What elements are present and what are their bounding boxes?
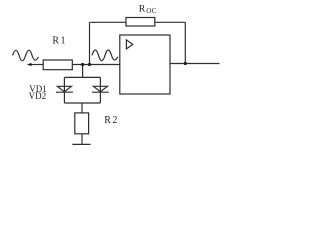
feedback wire down to output bbox=[184, 22, 186, 63]
svg-text:R2: R2 bbox=[104, 115, 119, 126]
diode bottom bus bbox=[64, 102, 100, 104]
svg-text:R: R bbox=[139, 3, 146, 14]
op-amp triangle marker bbox=[126, 40, 132, 49]
svg-text:VD2: VD2 bbox=[29, 91, 46, 101]
ground bbox=[72, 143, 90, 145]
squiggle at op-amp input bbox=[92, 50, 118, 61]
op-amp U1 body bbox=[120, 35, 170, 94]
input arrow bbox=[27, 63, 32, 66]
resistor Roc bbox=[126, 18, 155, 27]
feedback wire right segment bbox=[155, 21, 186, 23]
diode right branch wire bbox=[99, 77, 101, 103]
wire R2 to ground bbox=[81, 134, 83, 145]
junction node A bbox=[81, 63, 84, 66]
wire node A down to diodes bbox=[82, 65, 84, 78]
AC source squiggle (input signal) bbox=[13, 50, 39, 61]
junction node B bbox=[88, 63, 91, 66]
wire R1 to op-amp input bbox=[72, 64, 120, 66]
svg-text:OC: OC bbox=[146, 7, 157, 15]
diode VD2 bbox=[93, 86, 107, 91]
resistor R2 bbox=[75, 113, 89, 134]
junction output node bbox=[184, 62, 187, 65]
diode VD1 bbox=[57, 86, 71, 91]
wire input arrow to R1 bbox=[30, 64, 44, 66]
diode top bus bbox=[64, 76, 100, 78]
resistor R1 bbox=[43, 60, 72, 70]
output wire bbox=[170, 63, 220, 65]
svg-text:R1: R1 bbox=[52, 36, 67, 47]
feedback wire left segment bbox=[90, 21, 127, 23]
wire bus to R2 bbox=[81, 103, 83, 113]
diode left branch wire bbox=[63, 77, 65, 103]
wire node B up to feedback bbox=[89, 22, 91, 64]
